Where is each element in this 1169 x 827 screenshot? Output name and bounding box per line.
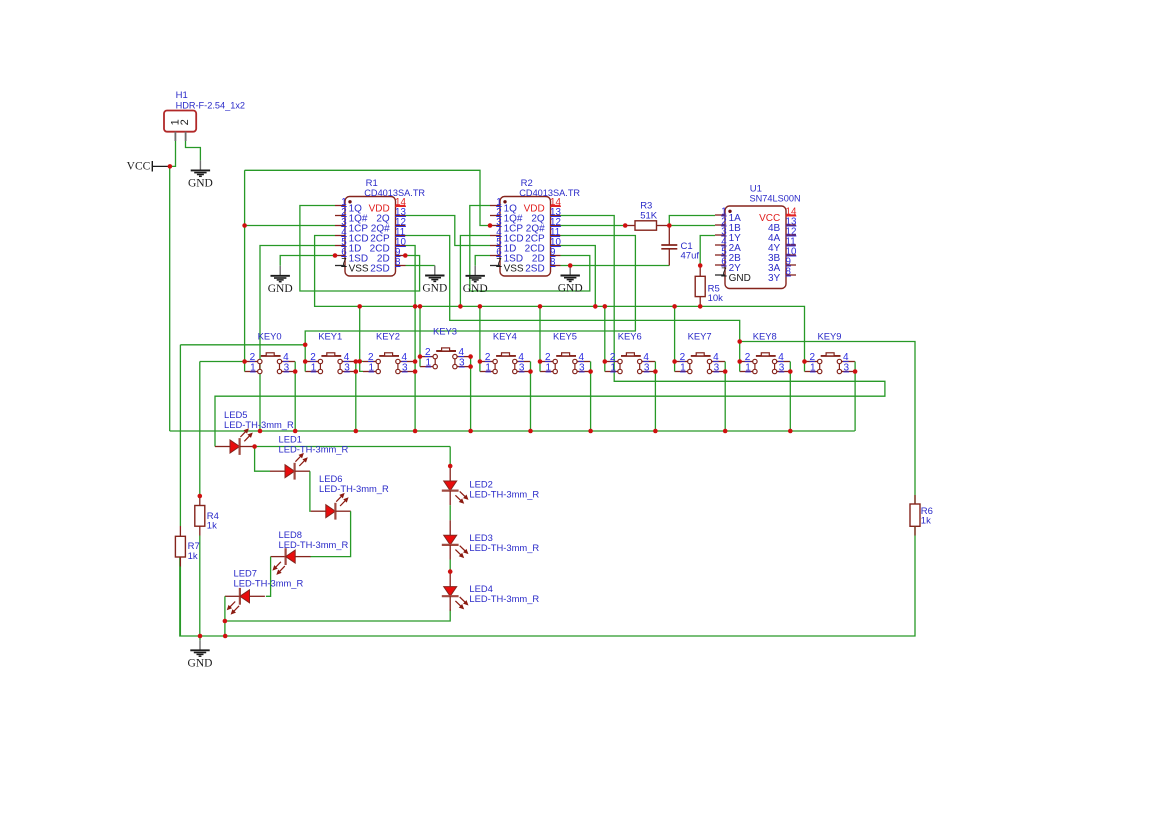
svg-text:LED-TH-3mm_R: LED-TH-3mm_R	[224, 419, 294, 430]
svg-text:2: 2	[368, 352, 374, 363]
svg-text:GND: GND	[558, 283, 583, 295]
svg-text:7: 7	[721, 267, 726, 278]
svg-text:CD4013SA.TR: CD4013SA.TR	[519, 188, 580, 198]
svg-text:10k: 10k	[708, 293, 724, 304]
svg-text:1k: 1k	[207, 521, 217, 532]
svg-text:3: 3	[844, 362, 850, 373]
svg-text:VSS: VSS	[349, 264, 369, 275]
svg-text:LED-TH-3mm_R: LED-TH-3mm_R	[279, 539, 349, 550]
svg-text:4: 4	[402, 352, 408, 363]
svg-text:4: 4	[643, 352, 649, 363]
svg-text:LED-TH-3mm_R: LED-TH-3mm_R	[319, 483, 389, 494]
svg-text:8: 8	[550, 257, 556, 268]
svg-text:2SD: 2SD	[370, 264, 389, 275]
svg-text:2: 2	[680, 352, 686, 363]
svg-text:3: 3	[284, 362, 290, 373]
svg-text:4: 4	[713, 352, 719, 363]
svg-text:CD4013SA.TR: CD4013SA.TR	[364, 188, 425, 198]
svg-text:1k: 1k	[921, 516, 931, 527]
svg-text:4: 4	[518, 352, 524, 363]
svg-text:1: 1	[745, 362, 751, 373]
svg-text:3: 3	[344, 362, 350, 373]
svg-text:GND: GND	[463, 283, 488, 295]
svg-text:LED-TH-3mm_R: LED-TH-3mm_R	[469, 542, 539, 553]
svg-text:4: 4	[579, 352, 585, 363]
svg-text:2: 2	[425, 347, 431, 358]
svg-text:3: 3	[579, 362, 585, 373]
svg-text:GND: GND	[422, 283, 447, 295]
svg-text:VSS: VSS	[504, 264, 524, 275]
svg-text:3: 3	[644, 362, 650, 373]
svg-text:1: 1	[546, 362, 552, 373]
svg-text:2: 2	[250, 352, 256, 363]
svg-text:GND: GND	[188, 178, 213, 190]
svg-text:LED-TH-3mm_R: LED-TH-3mm_R	[234, 578, 304, 589]
svg-text:1: 1	[810, 362, 816, 373]
svg-text:1: 1	[610, 362, 616, 373]
svg-text:1: 1	[311, 362, 317, 373]
svg-text:KEY9: KEY9	[818, 330, 842, 341]
svg-text:1: 1	[426, 358, 432, 369]
svg-text:4: 4	[843, 352, 849, 363]
svg-text:KEY1: KEY1	[318, 330, 342, 341]
svg-text:3: 3	[779, 362, 785, 373]
svg-text:2: 2	[485, 352, 491, 363]
svg-text:2: 2	[610, 352, 616, 363]
svg-text:GND: GND	[188, 658, 213, 670]
svg-text:KEY4: KEY4	[493, 330, 517, 341]
svg-text:4: 4	[778, 352, 784, 363]
svg-text:3: 3	[519, 362, 525, 373]
svg-text:1k: 1k	[188, 551, 198, 562]
svg-text:8: 8	[395, 257, 401, 268]
svg-text:3: 3	[714, 362, 720, 373]
svg-text:2: 2	[810, 352, 816, 363]
svg-text:KEY5: KEY5	[553, 330, 577, 341]
svg-text:KEY2: KEY2	[376, 330, 400, 341]
svg-text:LED-TH-3mm_R: LED-TH-3mm_R	[279, 444, 349, 455]
svg-text:4: 4	[344, 352, 350, 363]
svg-text:KEY3: KEY3	[433, 325, 457, 336]
svg-text:1: 1	[369, 362, 375, 373]
svg-text:3: 3	[459, 358, 465, 369]
svg-text:7: 7	[341, 257, 346, 268]
svg-text:4: 4	[283, 352, 289, 363]
svg-text:HDR-F-2.54_1x2: HDR-F-2.54_1x2	[176, 100, 245, 110]
svg-text:2: 2	[545, 352, 551, 363]
svg-text:KEY8: KEY8	[753, 330, 777, 341]
svg-text:8: 8	[786, 267, 792, 278]
svg-text:51K: 51K	[640, 210, 658, 221]
svg-text:1: 1	[250, 362, 256, 373]
svg-text:KEY6: KEY6	[618, 330, 642, 341]
svg-text:2SD: 2SD	[525, 264, 544, 275]
svg-text:2: 2	[745, 352, 751, 363]
svg-text:47uf: 47uf	[681, 251, 700, 262]
svg-text:KEY7: KEY7	[688, 330, 712, 341]
svg-text:SN74LS00N: SN74LS00N	[750, 194, 801, 204]
svg-text:1: 1	[680, 362, 686, 373]
svg-text:3: 3	[402, 362, 408, 373]
svg-text:LED-TH-3mm_R: LED-TH-3mm_R	[469, 489, 539, 500]
svg-text:GND: GND	[268, 283, 293, 295]
svg-text:4: 4	[459, 347, 465, 358]
svg-text:2: 2	[179, 119, 191, 125]
svg-text:3Y: 3Y	[768, 273, 781, 284]
svg-text:VCC: VCC	[127, 160, 151, 172]
svg-text:1: 1	[485, 362, 491, 373]
svg-text:LED-TH-3mm_R: LED-TH-3mm_R	[469, 593, 539, 604]
svg-text:7: 7	[496, 257, 501, 268]
svg-text:KEY0: KEY0	[258, 330, 282, 341]
svg-text:GND: GND	[729, 273, 751, 284]
svg-text:2: 2	[310, 352, 316, 363]
